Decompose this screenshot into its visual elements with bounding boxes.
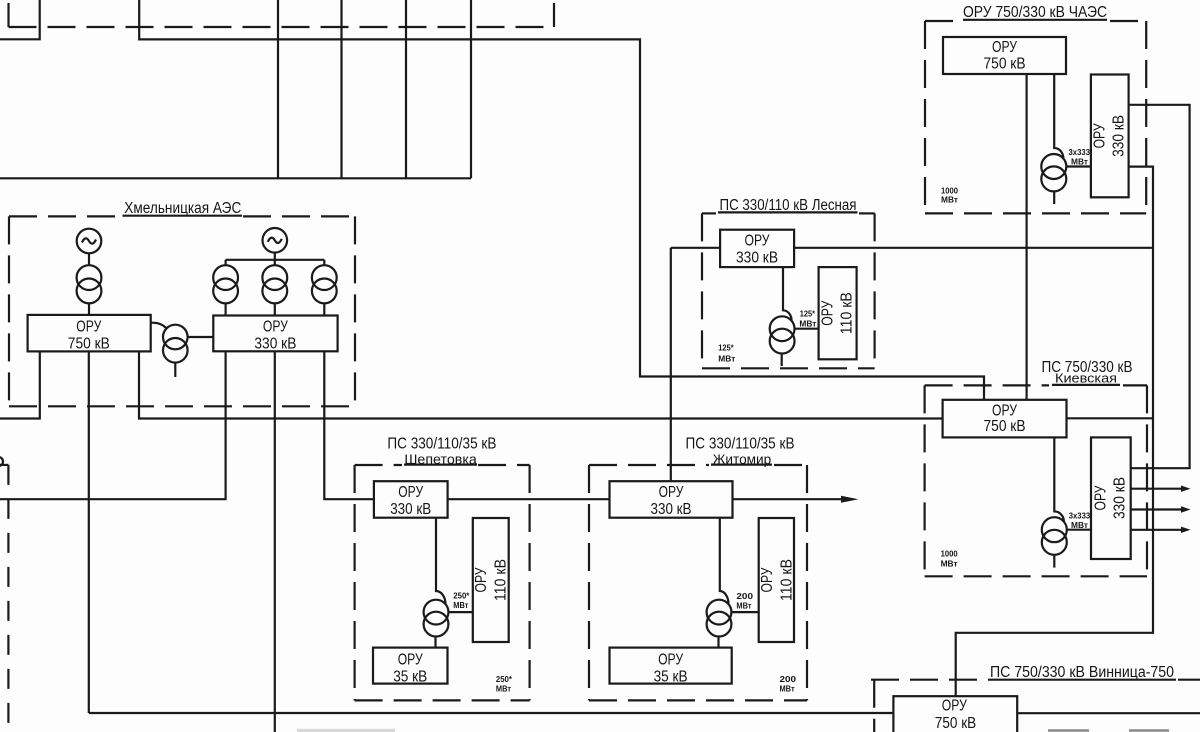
wire from top edge to ПС Киевская ОРУ 750 кВ (long route) — [139, 0, 984, 400]
svg-text:35 кВ: 35 кВ — [654, 668, 688, 685]
box ОРУ 110 кВ (Шепетовка) — [473, 518, 510, 642]
svg-text:МВт: МВт — [1071, 520, 1088, 530]
dashed boundary edge (left, cut off) — [7, 465, 9, 732]
title ПС 330/110/35 кВ Житомир — [686, 436, 795, 468]
transformer 3х333 МВт (Киевская) — [1042, 517, 1067, 542]
transformer T3 — [262, 265, 287, 290]
svg-text:330 кВ: 330 кВ — [736, 250, 778, 267]
dashed boundary ПС Житомир — [589, 465, 807, 700]
svg-text:Хмельницкая АЭС: Хмельницкая АЭС — [124, 200, 241, 217]
svg-text:МВт: МВт — [718, 354, 735, 364]
stub below transformer (Лесная) — [781, 354, 783, 367]
svg-text:ОРУ: ОРУ — [820, 300, 837, 326]
svg-text:ОРУ 750/330 кВ ЧАЭС: ОРУ 750/330 кВ ЧАЭС — [963, 4, 1107, 21]
svg-text:ОРУ: ОРУ — [1092, 485, 1109, 511]
svg-text:ОРУ: ОРУ — [992, 39, 1018, 56]
wire transformer to ОРУ 110 (Житомир) — [731, 611, 758, 613]
svg-text:ОРУ: ОРУ — [263, 319, 289, 336]
label 200 МВт (boundary Житомир) — [780, 674, 797, 693]
svg-text:3х333: 3х333 — [1069, 147, 1091, 157]
svg-text:МВт: МВт — [780, 683, 795, 693]
label 125* МВт (transformer) — [799, 308, 816, 328]
wire corner exiting top-left (to left edge) — [0, 0, 40, 39]
arrow output 2 (Киевская 330) — [1131, 506, 1191, 512]
svg-text:330 кВ: 330 кВ — [1111, 115, 1128, 157]
wire ЧАЭС 750 down to Киевская 750 — [1025, 74, 1027, 400]
autotransformer AT1 between 750 and 330 — [151, 323, 214, 377]
svg-text:МВт: МВт — [1071, 157, 1088, 167]
label 3х333 МВт (ЧАЭС) — [1069, 147, 1091, 167]
box ОРУ 110 кВ (Житомир) — [759, 518, 796, 642]
faint dashes (cut) near bottom right — [1048, 729, 1169, 732]
generator G2 (330 кВ side) — [263, 228, 288, 253]
stub below transformer (Киевская) — [1053, 555, 1055, 568]
svg-text:750 кВ: 750 кВ — [984, 418, 1026, 435]
dashed boundary ОРУ 750/330 кВ ЧАЭС — [925, 21, 1146, 213]
svg-text:125*: 125* — [718, 343, 734, 353]
transformer T1 — [77, 265, 102, 290]
svg-text:1000: 1000 — [941, 548, 958, 558]
partial node circle at left edge — [0, 457, 3, 466]
arrow output 1 (Киевская 330) — [1131, 486, 1191, 492]
box ОРУ 330 кВ (Хмельницкая АЭС) — [213, 316, 337, 353]
wire Шепетовка 330 to Житомир 330 — [448, 498, 610, 500]
arrow output 3 (Киевская 330) — [1131, 527, 1191, 533]
svg-text:ОРУ: ОРУ — [942, 697, 968, 714]
svg-text:250*: 250* — [453, 590, 470, 600]
svg-text:ПС 330/110/35 кВ: ПС 330/110/35 кВ — [387, 436, 496, 453]
wire ОРУ 330 down to transformer (Житомир) — [720, 518, 729, 604]
box ОРУ 750 кВ (Хмельницкая АЭС) — [28, 315, 151, 353]
svg-text:МВт: МВт — [496, 683, 511, 693]
svg-text:МВт: МВт — [736, 601, 751, 611]
svg-text:35 кВ: 35 кВ — [393, 668, 427, 685]
svg-text:ОРУ: ОРУ — [658, 652, 684, 669]
svg-text:330 кВ: 330 кВ — [390, 501, 431, 518]
svg-text:ОРУ: ОРУ — [759, 567, 776, 593]
label 200 МВт (transformer Житомир) — [736, 591, 753, 611]
transformer T4 — [312, 265, 337, 290]
wire hook at left edge — [0, 464, 8, 466]
transformer T2 — [213, 265, 238, 290]
wire node to Житомир (vertical) and into ОРУ 330 Лесная — [671, 248, 720, 481]
svg-text:110 кВ: 110 кВ — [493, 559, 510, 601]
svg-text:330 кВ: 330 кВ — [254, 336, 296, 353]
dashed boundary (cut off at top), bottom edge with corner stubs — [9, 3, 555, 27]
svg-text:110 кВ: 110 кВ — [839, 292, 856, 334]
svg-text:МВт: МВт — [941, 559, 958, 569]
wire ОРУ 330 output 1 to left edge — [0, 351, 226, 499]
wire ЧАЭС 750 to transformer — [1054, 74, 1063, 159]
box ОРУ 330 кВ (Шепетовка) — [374, 481, 448, 518]
label 1000 МВт (ЧАЭС) — [941, 185, 958, 204]
svg-text:110 кВ: 110 кВ — [779, 559, 796, 601]
title ПС 330/110/35 кВ Шепетовка — [387, 436, 496, 468]
svg-text:МВт: МВт — [799, 319, 816, 329]
wire transformer to ОРУ 330 (Киевская) — [1067, 529, 1091, 531]
svg-text:750 кВ: 750 кВ — [68, 336, 110, 353]
svg-text:750 кВ: 750 кВ — [984, 56, 1026, 73]
svg-text:ОРУ: ОРУ — [659, 484, 684, 501]
wire transformer to ОРУ 330 (ЧАЭС) — [1066, 165, 1091, 167]
dashed boundary ПС Шепетовка — [355, 465, 530, 700]
svg-text:ОРУ: ОРУ — [745, 232, 771, 249]
wire Винница 750 right to image edge — [1017, 712, 1200, 714]
label 250* МВт (transformer Шепетовка) — [453, 590, 470, 610]
wire ОРУ 750 output 3 to Киевская (long horizontal) — [139, 351, 943, 418]
bus over three transformers — [226, 259, 325, 261]
box ОРУ 110 кВ (Лесная) — [819, 267, 857, 359]
svg-text:3х333: 3х333 — [1069, 510, 1091, 520]
box ОРУ 750 кВ (Киевская) — [943, 400, 1067, 438]
svg-text:125*: 125* — [800, 308, 816, 318]
label 1000 МВт (Киевская) — [941, 548, 958, 568]
wire transformer to ОРУ 110 (Лесная) — [795, 328, 819, 330]
wire Киевская 750 to transformer — [1054, 437, 1064, 521]
wire ОРУ 750 output 2 down to Винница wire — [88, 351, 90, 713]
svg-text:МВт: МВт — [941, 194, 958, 204]
label 3х333 МВт (Киевская) — [1069, 510, 1091, 530]
wire G2 to bus — [274, 252, 276, 259]
transformer 3х333 МВт (ЧАЭС) — [1041, 154, 1066, 179]
wire to ПС Винница-750 (bottom horizontal) — [89, 712, 894, 714]
title ПС 750/330 кВ Винница-750 — [988, 664, 1176, 681]
wire Киевская 750 right to x1153 route — [1067, 417, 1154, 419]
svg-text:750 кВ: 750 кВ — [935, 715, 976, 732]
dashed boundary ПС Лесная — [702, 213, 875, 368]
wires T2,T3,T4 to ОРУ 330 кВ — [226, 303, 325, 315]
wire ОРУ 330 down to transformer (Лесная) — [783, 267, 792, 321]
faint cut-off text at bottom — [297, 729, 395, 732]
dashed boundary ПС Киевская — [925, 385, 1147, 576]
transformer 200 МВт (Житомир) — [707, 600, 732, 625]
stub transformer to ОРУ 35 (Житомир) — [717, 637, 719, 648]
dashed boundary Хмельницкая АЭС — [9, 216, 355, 406]
svg-text:ОРУ: ОРУ — [992, 402, 1018, 419]
box ОРУ 330 кВ (Житомир) — [610, 481, 733, 518]
svg-text:ОРУ: ОРУ — [398, 484, 423, 501]
svg-text:200: 200 — [736, 591, 753, 601]
box ОРУ 750 кВ (Винница) — [893, 696, 1017, 732]
generator G1 (750 кВ side) — [77, 229, 102, 254]
svg-text:ОРУ: ОРУ — [1092, 123, 1109, 149]
label 125* МВт (boundary) — [718, 343, 735, 364]
transformer 250 МВт (Шепетовка) — [424, 600, 449, 625]
wire ОРУ 330 down to transformer (Шепетовка) — [436, 518, 446, 604]
wire ОРУ 330 output 3 to Шепетовка — [324, 351, 374, 499]
title ОРУ 750/330 кВ ЧАЭС — [963, 4, 1107, 21]
transformer Т (Лесная 125 МВт) — [770, 316, 795, 341]
stub transformer to ОРУ 35 (Шепетовка) — [434, 637, 436, 648]
svg-text:ОРУ: ОРУ — [398, 652, 424, 669]
label 250* МВт (boundary Шепетовка) — [496, 674, 513, 693]
stubs bus to transformers — [226, 260, 325, 266]
arrow Житомир 330 output right — [733, 496, 859, 503]
wire ЧАЭС 330 down-route to Винница (via x1153) — [956, 167, 1153, 697]
svg-text:МВт: МВт — [453, 600, 468, 610]
box ОРУ 330 кВ (Киевская) — [1091, 437, 1131, 559]
title Хмельницкая АЭС — [123, 200, 243, 217]
dashed boundary ПС Винница-750 (top edge) — [871, 680, 1200, 732]
svg-text:330 кВ: 330 кВ — [651, 501, 692, 518]
wire bus to left edge with four risers to top edge — [0, 0, 471, 178]
stub below transformer (ЧАЭС) — [1053, 191, 1055, 204]
wire transformer to ОРУ 110 (Шепетовка) — [448, 611, 472, 613]
wire ЧАЭС 330 right U-loop down to Киевская 330 — [1129, 105, 1190, 468]
box ОРУ 750 кВ (ЧАЭС) — [943, 37, 1066, 74]
wire ОРУ 330 output 2 to bottom edge — [274, 351, 276, 732]
svg-text:Киевская: Киевская — [1055, 371, 1117, 386]
svg-text:ОРУ: ОРУ — [76, 319, 102, 336]
svg-text:ПС 750/330 кВ Винница-750: ПС 750/330 кВ Винница-750 — [990, 664, 1174, 681]
box ОРУ 330 кВ (Лесная) — [720, 230, 794, 267]
wire G1 to T1 — [88, 253, 90, 265]
box ОРУ 35 кВ (Житомир) — [610, 648, 732, 686]
title ПС 750/330 кВ Киевская — [1042, 359, 1133, 386]
title ПС 330/110 кВ Лесная — [718, 197, 858, 214]
wire T1 to ОРУ 750 кВ — [88, 303, 90, 315]
box ОРУ 35 кВ (Шепетовка) — [373, 648, 448, 686]
box ОРУ 330 кВ (ЧАЭС) — [1091, 75, 1129, 198]
wire ОРУ 330 Лесная to Киевская route — [794, 247, 1153, 249]
svg-text:330 кВ: 330 кВ — [1111, 477, 1128, 519]
svg-text:ПС 330/110/35 кВ: ПС 330/110/35 кВ — [686, 436, 795, 453]
wire ОРУ 750 output 1 to left edge — [0, 351, 40, 418]
svg-text:ОРУ: ОРУ — [473, 567, 490, 593]
